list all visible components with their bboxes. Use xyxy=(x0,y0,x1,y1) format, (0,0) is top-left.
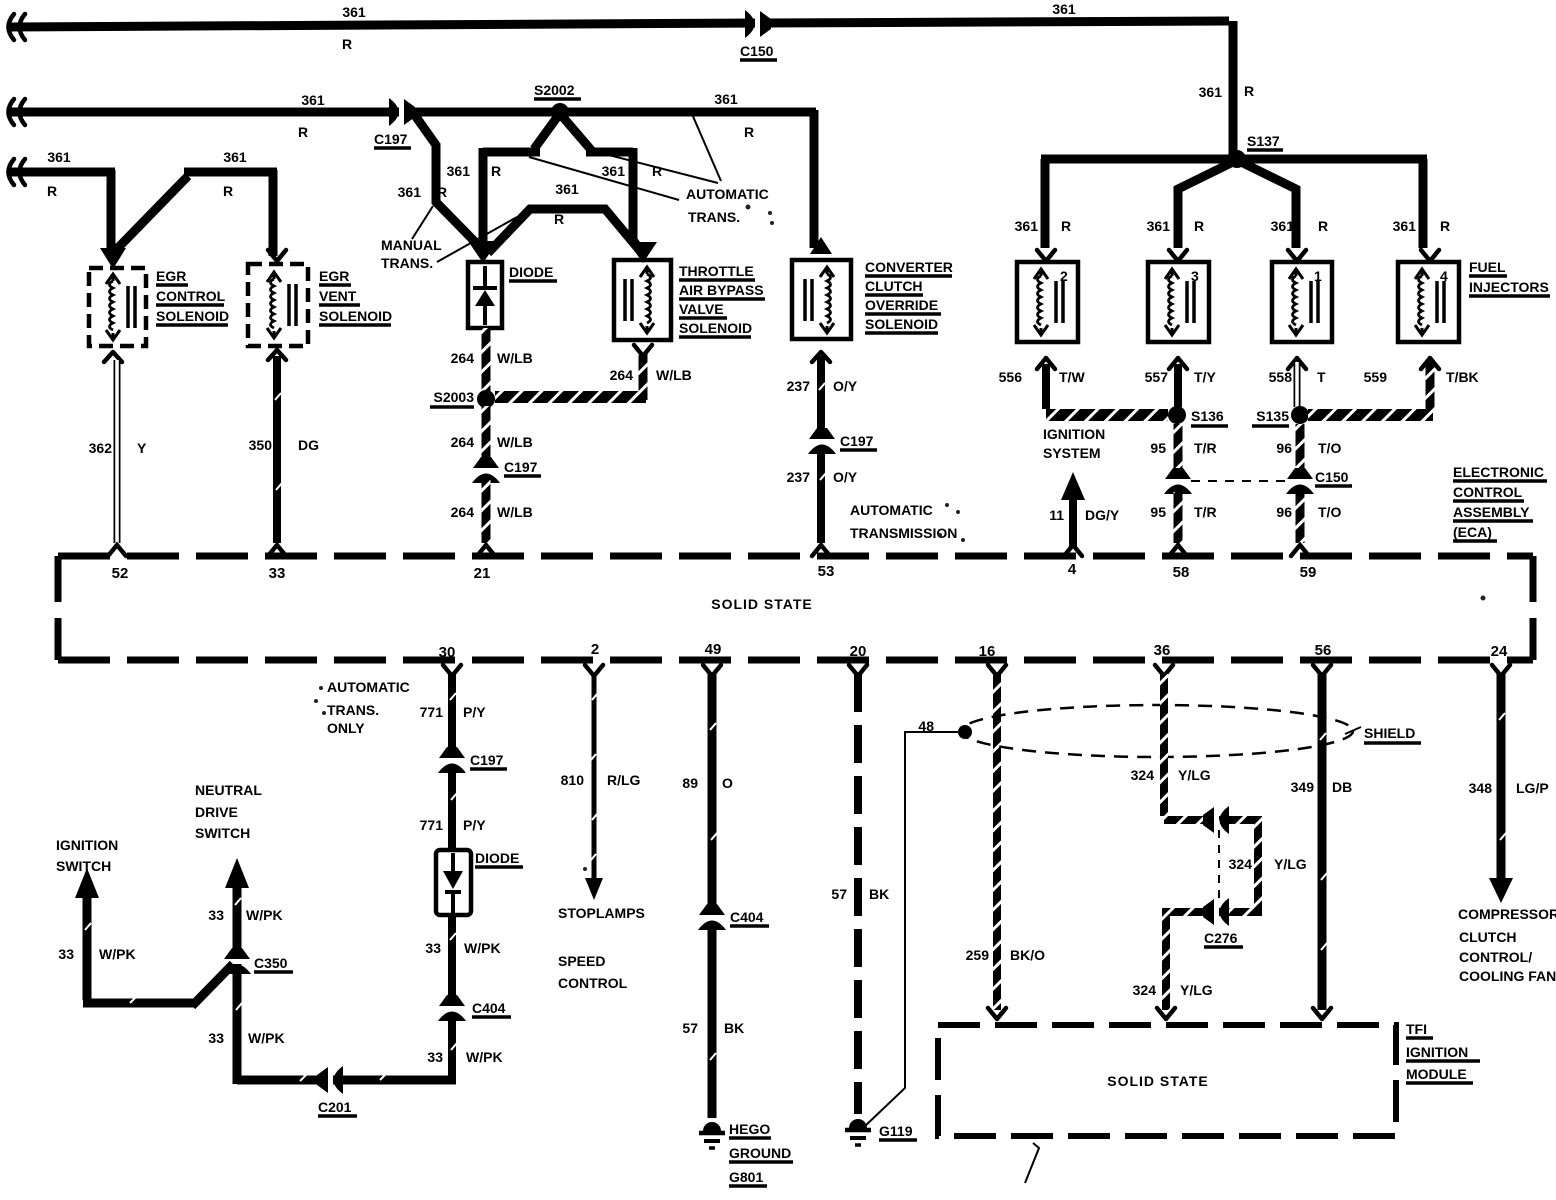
svg-text:T/BK: T/BK xyxy=(1446,369,1479,385)
svg-text:DIODE: DIODE xyxy=(475,850,519,866)
svg-text:264: 264 xyxy=(610,367,634,383)
EGR control solenoid xyxy=(89,248,229,346)
svg-text:361: 361 xyxy=(223,149,247,165)
svg-text:361: 361 xyxy=(714,91,738,107)
svg-text:T/R: T/R xyxy=(1194,504,1217,520)
ECA pin 33 xyxy=(268,545,286,582)
diode (top, in solid box) xyxy=(468,262,557,328)
fuel injector 2 xyxy=(1017,250,1078,342)
ECA pin 59 xyxy=(1291,545,1316,581)
svg-text:350: 350 xyxy=(249,437,273,453)
wire nick marks (fax artifacts) xyxy=(85,383,1506,1081)
wire 771 P/Y (C197 to diode) xyxy=(420,771,487,848)
ECA pin 52 xyxy=(108,545,128,582)
svg-text:324: 324 xyxy=(1131,767,1155,783)
svg-text:R: R xyxy=(554,211,564,227)
svg-text:R: R xyxy=(491,163,501,179)
svg-text:237: 237 xyxy=(787,469,811,485)
wire 324 Y/LG (ECA pin 36 to C276) xyxy=(1131,674,1254,820)
svg-text:S135: S135 xyxy=(1256,408,1289,424)
wire 33 W/PK (to neutral drive switch) xyxy=(208,858,284,1084)
svg-text:EGR: EGR xyxy=(156,268,186,284)
splice S137 xyxy=(1228,133,1283,168)
svg-text:R: R xyxy=(47,183,57,199)
svg-text:33: 33 xyxy=(427,1049,443,1065)
labels 361 R (injector feeds) xyxy=(1015,218,1450,234)
svg-text:361: 361 xyxy=(1015,218,1039,234)
splice S135 xyxy=(1252,406,1309,426)
svg-text:33: 33 xyxy=(208,907,224,923)
note IGNITION SYSTEM xyxy=(1043,426,1105,461)
wire 361 branch S2002 left to diode xyxy=(447,116,558,263)
svg-text:53: 53 xyxy=(818,563,835,580)
svg-text:AUTOMATIC: AUTOMATIC xyxy=(850,502,933,518)
svg-text:361: 361 xyxy=(447,163,471,179)
svg-text:BK/O: BK/O xyxy=(1010,947,1045,963)
svg-text:ELECTRONIC: ELECTRONIC xyxy=(1453,464,1544,480)
svg-text:24: 24 xyxy=(1491,643,1508,660)
ECA pin 16 xyxy=(979,643,1006,676)
svg-text:W/PK: W/PK xyxy=(248,1030,285,1046)
svg-text:237: 237 xyxy=(787,378,811,394)
svg-text:W/LB: W/LB xyxy=(497,504,533,520)
svg-text:S2003: S2003 xyxy=(434,389,475,405)
svg-text:33: 33 xyxy=(208,1030,224,1046)
svg-text:810: 810 xyxy=(561,772,585,788)
svg-text:96: 96 xyxy=(1276,440,1292,456)
svg-text:R: R xyxy=(437,184,447,200)
svg-text:TFI: TFI xyxy=(1406,1021,1427,1037)
svg-text:361: 361 xyxy=(1393,218,1417,234)
svg-text:Y/LG: Y/LG xyxy=(1178,767,1211,783)
svg-text:SPEED: SPEED xyxy=(558,953,605,969)
wire 557 T/Y (injector 3 to S136) xyxy=(1145,358,1217,407)
svg-text:C150: C150 xyxy=(740,43,774,59)
wire 556 T/W (injector 2 to S136) xyxy=(999,358,1168,415)
svg-text:TRANS.: TRANS. xyxy=(688,209,740,225)
svg-text:COOLING FAN: COOLING FAN xyxy=(1459,968,1556,984)
svg-text:48: 48 xyxy=(918,718,934,734)
wire 324 Y/LG (C276 to TFI) xyxy=(1133,908,1213,1019)
svg-text:59: 59 xyxy=(1300,564,1317,581)
wire 350 DG (EGR vent to ECA pin 33) xyxy=(249,350,319,543)
svg-text:558: 558 xyxy=(1269,369,1293,385)
ECA pin 4 xyxy=(1064,545,1082,578)
label 361 R (second feed) xyxy=(298,91,754,140)
svg-text:EGR: EGR xyxy=(319,268,349,284)
connector C404 (on 33 wire) xyxy=(438,995,511,1021)
svg-text:OVERRIDE: OVERRIDE xyxy=(865,297,938,313)
svg-text:DG: DG xyxy=(298,437,319,453)
wire 361 (top feed) xyxy=(8,14,1233,155)
note COMPRESSOR CLUTCH CONTROL/ COOLING FAN xyxy=(1458,906,1556,984)
svg-text:S137: S137 xyxy=(1247,133,1280,149)
ECA pin 2 xyxy=(585,641,603,676)
connector C197 (in-line on second feed) xyxy=(374,98,415,148)
svg-text:S136: S136 xyxy=(1191,408,1224,424)
svg-text:AIR BYPASS: AIR BYPASS xyxy=(679,282,764,298)
svg-text:O/Y: O/Y xyxy=(833,378,858,394)
ECA pin 36 xyxy=(1154,642,1173,676)
svg-text:R/LG: R/LG xyxy=(607,772,641,788)
svg-text:361: 361 xyxy=(1052,1,1076,17)
label 361 R (top feed) xyxy=(342,1,1254,100)
diode (bottom, in solid box) xyxy=(436,850,523,915)
wire 237 O/Y (C197 to ECA pin 53) xyxy=(787,452,858,543)
svg-text:CONVERTER: CONVERTER xyxy=(865,259,953,275)
svg-text:DB: DB xyxy=(1332,779,1352,795)
svg-text:MANUAL: MANUAL xyxy=(381,237,442,253)
svg-text:259: 259 xyxy=(966,947,990,963)
svg-text:11: 11 xyxy=(1049,507,1064,523)
svg-text:36: 36 xyxy=(1154,642,1171,659)
wire 96 T/O (C150 to ECA pin 59) xyxy=(1276,492,1341,543)
connector C150 (on 96 wire) xyxy=(1191,468,1352,494)
svg-text:95: 95 xyxy=(1150,440,1166,456)
svg-text:324: 324 xyxy=(1133,982,1157,998)
svg-text:R: R xyxy=(652,163,662,179)
svg-text:T/W: T/W xyxy=(1059,369,1085,385)
wire 89 O (ECA pin 49 to C404) xyxy=(682,674,733,905)
svg-text:TRANS.: TRANS. xyxy=(381,255,433,271)
svg-text:W/LB: W/LB xyxy=(497,350,533,366)
svg-text:33: 33 xyxy=(58,946,74,962)
svg-text:S2002: S2002 xyxy=(534,82,575,98)
connector C350 xyxy=(223,948,293,974)
ECA solid state module box xyxy=(58,556,1533,660)
svg-text:95: 95 xyxy=(1150,504,1166,520)
TFI ignition module box xyxy=(938,1021,1480,1136)
connector C276 (bottom half) xyxy=(1203,830,1243,947)
svg-text:ONLY: ONLY xyxy=(327,720,365,736)
svg-text:361: 361 xyxy=(301,92,325,108)
wire 264 W/LB (C197 to ECA pin 21) xyxy=(451,480,533,543)
wire 349 DB (ECA pin 56 to TFI) xyxy=(1291,674,1353,1019)
fuel injector 4 xyxy=(1398,250,1459,342)
svg-text:771: 771 xyxy=(420,704,444,720)
svg-text:SWITCH: SWITCH xyxy=(56,858,111,874)
svg-text:SOLENOID: SOLENOID xyxy=(679,320,752,336)
ECA pin 30 xyxy=(439,644,461,676)
shield (dashed ellipse) xyxy=(961,705,1421,757)
wire 559 T/BK (injector 4 to S135) xyxy=(1308,358,1479,415)
connector C197 (on 771 wire) xyxy=(438,747,507,773)
svg-text:R: R xyxy=(298,124,308,140)
svg-text:W/PK: W/PK xyxy=(246,907,283,923)
svg-text:SOLENOID: SOLENOID xyxy=(319,308,392,324)
svg-text:361: 361 xyxy=(1271,218,1295,234)
splice S2002 xyxy=(534,82,581,121)
ECA pin 53 xyxy=(812,545,834,580)
svg-text:T/R: T/R xyxy=(1194,440,1217,456)
svg-text:Y/LG: Y/LG xyxy=(1274,856,1307,872)
svg-text:R: R xyxy=(1318,218,1328,234)
converter clutch override solenoid xyxy=(792,237,953,339)
svg-text:R: R xyxy=(1244,83,1254,99)
note AUTOMATIC TRANSMISSION xyxy=(850,502,957,541)
svg-text:DIODE: DIODE xyxy=(509,264,553,280)
wire 96 T/O (S135 to C150) xyxy=(1276,424,1341,470)
svg-text:58: 58 xyxy=(1173,564,1190,581)
fuel injector 1 xyxy=(1272,250,1332,342)
wire 361 bridge diode to throttle air bypass (automatic trans) xyxy=(488,181,641,253)
svg-text:STOPLAMPS: STOPLAMPS xyxy=(558,905,645,921)
wire 348 LG/P (ECA pin 24 to compressor clutch) xyxy=(1469,674,1549,903)
ECA pin 24 xyxy=(1491,643,1510,676)
svg-text:W/LB: W/LB xyxy=(656,367,692,383)
svg-text:CONTROL: CONTROL xyxy=(558,975,628,991)
ground G119 xyxy=(845,1119,917,1145)
label FUEL INJECTORS xyxy=(1469,259,1550,296)
svg-text:W/PK: W/PK xyxy=(99,946,136,962)
note MANUAL TRANS. with leaders xyxy=(381,206,517,271)
ECA pin 21 xyxy=(474,545,495,582)
note IGNITION SWITCH xyxy=(56,837,118,874)
svg-text:C150: C150 xyxy=(1315,469,1349,485)
wire 324 Y/LG (C276 jog) xyxy=(1170,816,1307,912)
svg-text:T/Y: T/Y xyxy=(1194,369,1216,385)
svg-text:ASSEMBLY: ASSEMBLY xyxy=(1453,504,1530,520)
svg-text:16: 16 xyxy=(979,643,996,660)
svg-text:R: R xyxy=(342,36,352,52)
svg-text:G801: G801 xyxy=(729,1169,763,1185)
splice S136 xyxy=(1168,406,1228,426)
svg-text:SOLID STATE: SOLID STATE xyxy=(1107,1073,1208,1089)
svg-text:556: 556 xyxy=(999,369,1023,385)
wire 771 P/Y (ECA pin 30 to C197) xyxy=(420,674,487,748)
wire 264 W/LB (diode to S2003) xyxy=(451,328,533,393)
svg-text:THROTTLE: THROTTLE xyxy=(679,263,754,279)
svg-text:361: 361 xyxy=(555,181,579,197)
svg-text:557: 557 xyxy=(1145,369,1169,385)
connector C197 (on 264 wire) xyxy=(472,457,541,483)
fuel injector 3 xyxy=(1148,250,1209,342)
svg-text:361: 361 xyxy=(1199,84,1223,100)
wire 33 W/PK (diode to C404) xyxy=(425,915,500,996)
svg-text:89: 89 xyxy=(682,775,698,791)
svg-text:P/Y: P/Y xyxy=(463,817,486,833)
svg-text:361: 361 xyxy=(398,184,422,200)
svg-text:C197: C197 xyxy=(470,752,504,768)
svg-text:1: 1 xyxy=(1314,268,1322,284)
wire 57 BK (ECA pin 20 to G119, dashed) xyxy=(831,674,889,1114)
svg-text:R: R xyxy=(1061,218,1071,234)
svg-text:C350: C350 xyxy=(254,955,288,971)
wire 361 branch S2002 right to throttle air bypass xyxy=(562,116,662,263)
svg-text:49: 49 xyxy=(705,641,722,658)
svg-text:Y: Y xyxy=(137,440,147,456)
svg-text:IGNITION: IGNITION xyxy=(1406,1044,1468,1060)
svg-text:VENT: VENT xyxy=(319,288,357,304)
connector C150 (on 95 wire) xyxy=(1164,468,1192,494)
svg-text:349: 349 xyxy=(1291,779,1315,795)
svg-text:G119: G119 xyxy=(879,1123,913,1139)
svg-text:CONTROL: CONTROL xyxy=(156,288,226,304)
wire 264 W/LB (S2003 to throttle air bypass) xyxy=(495,345,692,400)
throttle air bypass valve solenoid xyxy=(614,260,765,340)
svg-text:33: 33 xyxy=(269,565,286,582)
note NEUTRAL DRIVE SWITCH xyxy=(195,782,262,841)
connector C276 (top half) xyxy=(1203,806,1229,834)
EGR vent solenoid xyxy=(248,250,392,346)
svg-text:R: R xyxy=(1194,218,1204,234)
svg-text:C404: C404 xyxy=(472,1000,506,1016)
wire 237 O/Y (converter clutch to C197) xyxy=(787,352,858,430)
svg-text:MODULE: MODULE xyxy=(1406,1066,1467,1082)
svg-text:30: 30 xyxy=(439,644,456,661)
note AUTOMATIC TRANS. ONLY xyxy=(327,679,410,736)
svg-text:264: 264 xyxy=(451,504,475,520)
ECA pin 20 xyxy=(849,643,867,676)
svg-text:96: 96 xyxy=(1276,504,1292,520)
svg-text:348: 348 xyxy=(1469,780,1493,796)
svg-text:DG/Y: DG/Y xyxy=(1085,507,1120,523)
fax noise specks xyxy=(314,205,1486,872)
splice S2003 xyxy=(430,389,495,408)
svg-text:CONTROL/: CONTROL/ xyxy=(1459,949,1532,965)
svg-text:264: 264 xyxy=(451,350,475,366)
wire 361 (third feed) xyxy=(8,149,115,256)
svg-text:C197: C197 xyxy=(840,433,874,449)
svg-text:CLUTCH: CLUTCH xyxy=(865,278,923,294)
wire 259 BK/O (ECA pin 16 to TFI) xyxy=(966,674,1045,1019)
svg-text:C197: C197 xyxy=(504,459,538,475)
svg-text:DRIVE: DRIVE xyxy=(195,804,238,820)
svg-text:361: 361 xyxy=(47,149,71,165)
S137 fan-out to injectors xyxy=(1041,159,1427,248)
svg-text:56: 56 xyxy=(1315,642,1332,659)
svg-text:SOLENOID: SOLENOID xyxy=(865,316,938,332)
svg-text:COMPRESSOR: COMPRESSOR xyxy=(1458,906,1556,922)
wire 48 (shield drain to G119) xyxy=(864,718,972,1127)
svg-text:R: R xyxy=(223,183,233,199)
svg-text:TRANS.: TRANS. xyxy=(327,702,379,718)
svg-text:LG/P: LG/P xyxy=(1516,780,1549,796)
svg-text:361: 361 xyxy=(1147,218,1171,234)
svg-text:20: 20 xyxy=(850,643,867,660)
svg-text:IGNITION: IGNITION xyxy=(56,837,118,853)
svg-text:GROUND: GROUND xyxy=(729,1145,791,1161)
wire 11 DG/Y (arrow from ECA pin 4) xyxy=(1049,472,1120,548)
svg-text:C404: C404 xyxy=(730,909,764,925)
svg-text:T: T xyxy=(1317,369,1326,385)
svg-text:O/Y: O/Y xyxy=(833,469,858,485)
svg-text:INJECTORS: INJECTORS xyxy=(1469,279,1549,295)
wire 95 T/R (S136 to C150) xyxy=(1150,424,1216,470)
wire 361 branch from C197 to diode (manual trans) xyxy=(398,114,480,247)
svg-text:771: 771 xyxy=(420,817,444,833)
svg-text:21: 21 xyxy=(474,565,491,582)
wire 33 W/PK (C404 to C201 elbow) xyxy=(237,1019,503,1080)
svg-text:TRANSMISSION: TRANSMISSION xyxy=(850,525,957,541)
wire 361 diagonal branch to EGR vent xyxy=(113,149,277,256)
HEGO ground G801 xyxy=(699,1121,793,1186)
svg-text:VALVE: VALVE xyxy=(679,301,724,317)
svg-text:362: 362 xyxy=(89,440,113,456)
note AUTOMATIC TRANS. with leaders xyxy=(529,114,769,225)
svg-text:SHIELD: SHIELD xyxy=(1364,725,1415,741)
ECA pin 58 xyxy=(1169,545,1189,581)
svg-text:C276: C276 xyxy=(1204,930,1238,946)
svg-text:52: 52 xyxy=(112,565,129,582)
svg-text:W/LB: W/LB xyxy=(497,434,533,450)
connector C201 (on horizontal 33 wire) xyxy=(317,1066,357,1116)
svg-text:361: 361 xyxy=(602,163,626,179)
svg-text:HEGO: HEGO xyxy=(729,1121,770,1137)
wire 57 BK (C404 to HEGO ground) xyxy=(682,928,744,1118)
svg-text:SWITCH: SWITCH xyxy=(195,825,250,841)
svg-text:SYSTEM: SYSTEM xyxy=(1043,445,1101,461)
svg-text:O: O xyxy=(722,775,733,791)
wire 95 T/R (C150 to ECA pin 58) xyxy=(1150,492,1216,543)
svg-text:559: 559 xyxy=(1364,369,1388,385)
svg-text:AUTOMATIC: AUTOMATIC xyxy=(686,186,769,202)
svg-text:361: 361 xyxy=(342,4,366,20)
wire 264 W/LB (S2003 down) xyxy=(451,406,533,462)
svg-text:2: 2 xyxy=(1060,268,1068,284)
ECA pin 49 xyxy=(703,641,721,676)
note STOPLAMPS / SPEED CONTROL xyxy=(558,905,645,991)
connector C404 (on 89 wire) xyxy=(698,904,769,930)
svg-text:3: 3 xyxy=(1191,268,1199,284)
svg-text:Y/LG: Y/LG xyxy=(1180,982,1213,998)
svg-text:C201: C201 xyxy=(318,1099,352,1115)
wire 810 R/LG (ECA pin 2 to stoplamps) xyxy=(561,674,641,900)
svg-text:FUEL: FUEL xyxy=(1469,259,1506,275)
svg-text:2: 2 xyxy=(591,641,599,658)
svg-text:BK: BK xyxy=(869,886,889,902)
svg-text:4: 4 xyxy=(1440,268,1448,284)
wire 361 (second feed) xyxy=(8,99,816,248)
svg-text:324: 324 xyxy=(1229,856,1253,872)
svg-text:SOLENOID: SOLENOID xyxy=(156,308,229,324)
svg-text:R: R xyxy=(1440,218,1450,234)
wire 558 T (injector 1 to S135) xyxy=(1269,358,1326,407)
svg-text:BK: BK xyxy=(724,1020,744,1036)
svg-text:T/O: T/O xyxy=(1318,504,1341,520)
wire 362 Y (EGR control to ECA pin 52) xyxy=(89,352,147,543)
svg-text:P/Y: P/Y xyxy=(463,704,486,720)
connector C150 (in-line, top wire) xyxy=(740,10,777,60)
svg-text:(ECA): (ECA) xyxy=(1453,524,1492,540)
svg-text:W/PK: W/PK xyxy=(466,1049,503,1065)
svg-text:264: 264 xyxy=(451,434,475,450)
svg-text:SOLID STATE: SOLID STATE xyxy=(711,596,812,612)
svg-text:IGNITION: IGNITION xyxy=(1043,426,1105,442)
svg-text:T/O: T/O xyxy=(1318,440,1341,456)
svg-text:R: R xyxy=(744,124,754,140)
svg-text:W/PK: W/PK xyxy=(464,940,501,956)
connector C197 (on 237 wire) xyxy=(808,428,877,454)
ECA pin 56 xyxy=(1313,642,1331,676)
svg-text:57: 57 xyxy=(831,886,847,902)
svg-text:NEUTRAL: NEUTRAL xyxy=(195,782,262,798)
wire 33 W/PK (ignition switch branch) xyxy=(58,868,233,1006)
svg-text:CLUTCH: CLUTCH xyxy=(1459,929,1517,945)
label ELECTRONIC CONTROL ASSEMBLY (ECA) xyxy=(1453,464,1547,541)
svg-text:57: 57 xyxy=(682,1020,698,1036)
svg-text:C197: C197 xyxy=(374,131,408,147)
svg-text:4: 4 xyxy=(1068,561,1077,578)
svg-text:CONTROL: CONTROL xyxy=(1453,484,1523,500)
pointer mark below TFI box xyxy=(1025,1143,1039,1183)
svg-text:33: 33 xyxy=(425,940,441,956)
svg-text:AUTOMATIC: AUTOMATIC xyxy=(327,679,410,695)
